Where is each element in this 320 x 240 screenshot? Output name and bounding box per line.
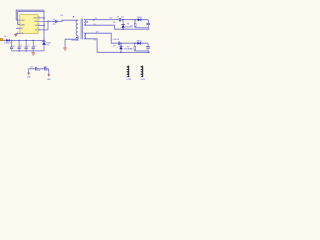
- svg-text:GND: GND: [20, 24, 25, 26]
- svg-text:1N4007: 1N4007: [4, 43, 10, 45]
- polarity dot primary top: [73, 16, 75, 18]
- svg-text:SS14: SS14: [137, 40, 143, 42]
- svg-text:104: 104: [121, 17, 124, 19]
- svg-text:DRV: DRV: [33, 18, 38, 20]
- diode D1: [6, 39, 9, 42]
- svg-text:C4: C4: [34, 45, 36, 47]
- diode D5 shunt stage2: [119, 43, 132, 52]
- junction pin2 / aux vertical: [47, 21, 49, 23]
- resistor R8 branch stage1: [127, 20, 148, 28]
- clamp diode D2: [42, 41, 51, 51]
- junction bus C4: [32, 40, 34, 42]
- ground filter left: [27, 73, 30, 75]
- svg-text:103: 103: [60, 15, 63, 17]
- wire inner feedback loop over U1: [18, 12, 44, 25]
- ground primary return: [63, 48, 67, 50]
- capacitor C13 series: [43, 66, 49, 72]
- capacitor C4: [32, 40, 37, 51]
- resistor R9 branch stage2: [127, 43, 148, 51]
- svg-text:2: 2: [18, 23, 19, 25]
- transformer T1 secondary winding A: [84, 19, 85, 25]
- svg-text:C12: C12: [30, 66, 33, 68]
- junction stage2 bottom right: [148, 52, 149, 53]
- ground primary rail: [31, 51, 35, 55]
- junction stage1 branch: [134, 19, 136, 21]
- U1 pin numbers left: [17, 19, 19, 34]
- wire filter left drop: [28, 69, 30, 73]
- svg-text:470: 470: [130, 49, 133, 51]
- transformer T1 core: [81, 19, 83, 40]
- svg-text:470: 470: [130, 26, 133, 28]
- junction rail C3: [25, 50, 26, 51]
- wire clamp branch vertical: [43, 10, 45, 41]
- junction pin3 / clamp vertical: [43, 25, 45, 27]
- capacitor C12 series: [30, 66, 40, 72]
- wire primary return: [65, 39, 78, 47]
- wire filter right drop: [48, 69, 50, 75]
- svg-text:470: 470: [113, 22, 116, 24]
- wire input bus: [3, 39, 44, 41]
- U1 right pin stubs: [38, 18, 48, 30]
- capacitor C8 series stage1: [117, 17, 124, 22]
- svg-text:C5: C5: [53, 19, 55, 21]
- svg-text:CON8: CON8: [126, 79, 131, 81]
- svg-text:C13: C13: [43, 66, 46, 68]
- transformer T1 secondary winding B: [84, 33, 85, 39]
- capacitor C10 series stage2: [113, 39, 120, 48]
- wire secondary B1 to stage2 top rail: [84, 33, 148, 43]
- wire secondary B2 to stage2 bottom rail: [84, 39, 149, 53]
- connector J2: [140, 66, 145, 81]
- wire secondary A2 to stage1 bottom rail: [84, 25, 114, 29]
- wire stage1 bottom rail: [114, 28, 149, 30]
- IC U1: [20, 15, 38, 36]
- polarity dot primary bottom: [76, 37, 77, 38]
- transformer T1 primary winding: [76, 20, 78, 39]
- wire primary bottom rail: [12, 50, 44, 52]
- capacitor C9 output stage1: [146, 20, 150, 30]
- svg-text:C2: C2: [20, 45, 22, 47]
- svg-text:C10 104: C10 104: [113, 39, 119, 41]
- svg-text:104: 104: [37, 70, 40, 72]
- wire U1 pin2 to transformer primary: [48, 20, 78, 21]
- U1 pin numbers right: [39, 16, 40, 30]
- diode D4 series stage1: [137, 17, 143, 21]
- svg-text:C3: C3: [27, 45, 29, 47]
- wire aux vertical pin2-pin4: [47, 21, 49, 30]
- capacitor C11 output stage2: [146, 43, 150, 52]
- svg-text:SW: SW: [34, 21, 37, 23]
- svg-text:470: 470: [113, 46, 116, 48]
- wire filter rail: [29, 68, 49, 70]
- connector J1: [126, 66, 131, 81]
- diode D6 series stage2: [137, 40, 143, 44]
- junction dot rail A1: [93, 19, 95, 21]
- wire outer feedback loop over U1: [16, 10, 44, 20]
- capacitor C2: [18, 40, 23, 51]
- svg-text:200: 200: [46, 44, 49, 46]
- junction stage2 branch: [134, 42, 136, 44]
- junction bus clamp: [43, 40, 45, 42]
- wire secondary A1 rail stage1 top: [84, 19, 148, 21]
- ground U1 pin4: [14, 33, 18, 36]
- polarity dot secondary A: [87, 21, 88, 22]
- ground filter right: [47, 75, 50, 77]
- capacitor C1: [10, 40, 15, 51]
- junction bus C1: [11, 40, 13, 42]
- svg-text:C8: C8: [117, 17, 119, 19]
- svg-text:D4: D4: [4, 36, 6, 38]
- junction bus C3: [25, 40, 27, 42]
- junction rail C2: [18, 50, 19, 51]
- svg-text:CON9: CON9: [140, 79, 145, 81]
- junction pin1 / clamp vertical: [43, 17, 45, 19]
- svg-text:VDD: VDD: [20, 20, 25, 22]
- input connector F1: [0, 39, 3, 41]
- capacitor C3: [25, 40, 30, 51]
- svg-text:222: 222: [53, 24, 56, 26]
- junction bus C2: [18, 40, 20, 42]
- diode D3 shunt stage1: [121, 20, 133, 30]
- U1 left pin stubs: [16, 20, 20, 33]
- svg-text:C1: C1: [13, 45, 15, 47]
- svg-text:TR2 EE25: TR2 EE25: [71, 40, 79, 42]
- snubber cap C5: [53, 15, 64, 26]
